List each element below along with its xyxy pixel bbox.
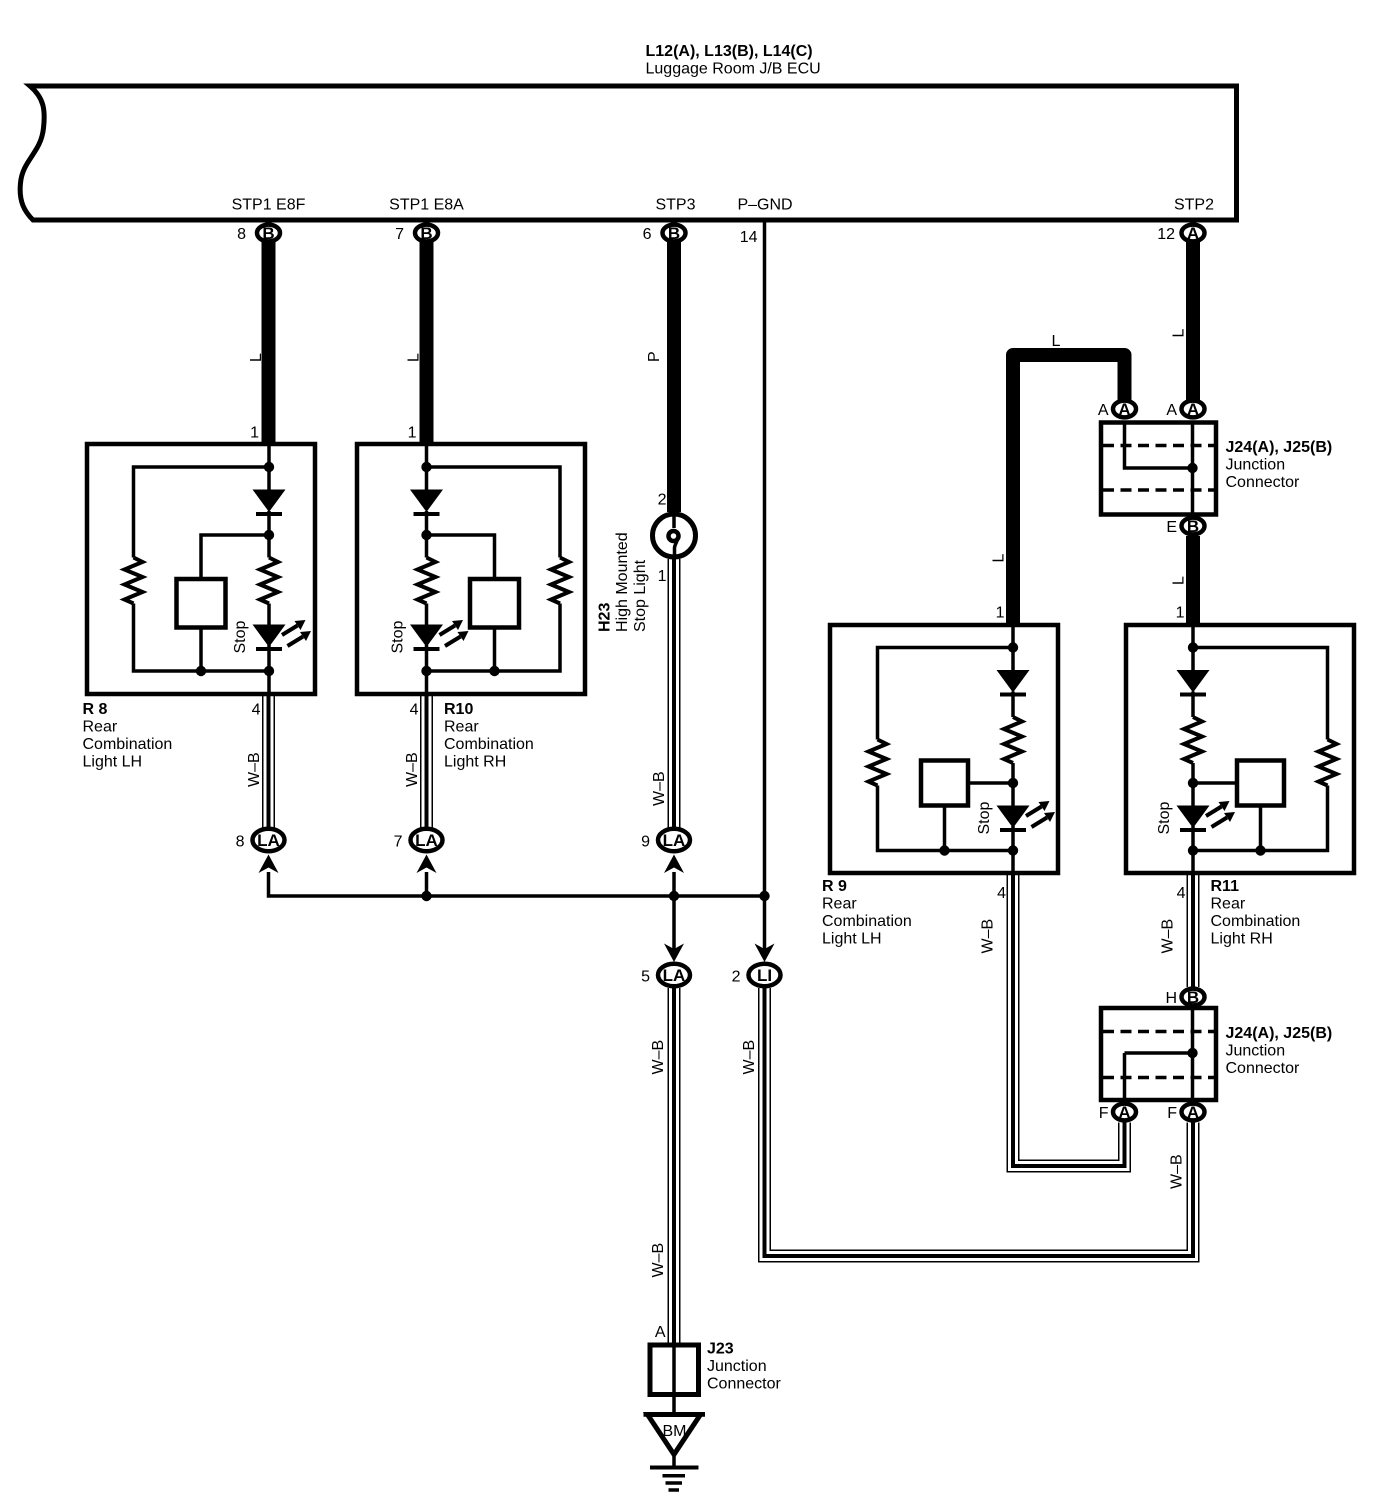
wire branch 9 LA to 5 LA — [672, 872, 676, 951]
svg-text:Combination: Combination — [1211, 913, 1301, 930]
svg-text:J24(A), J25(B): J24(A), J25(B) — [1226, 439, 1333, 456]
svg-text:8: 8 — [236, 834, 245, 851]
pin F (A) left of lower junction — [1113, 1103, 1136, 1122]
R11 main vertical wire — [1191, 625, 1195, 873]
svg-text:Luggage Room J/B ECU: Luggage Room J/B ECU — [646, 61, 821, 78]
svg-text:7: 7 — [394, 834, 403, 851]
R10 diode — [410, 490, 443, 515]
R9 node top — [1008, 642, 1018, 652]
R8 node bottom — [264, 666, 274, 676]
R11 box — [1126, 625, 1354, 873]
svg-text:1: 1 — [1176, 605, 1185, 622]
svg-text:Rear: Rear — [444, 719, 479, 736]
R9 node mid — [1008, 778, 1018, 788]
ground stem — [672, 1452, 676, 1466]
pin A (left) of upper junction — [1113, 400, 1136, 419]
wire W-B from 5 LA to J23 — [668, 988, 681, 1345]
svg-text:High Mounted: High Mounted — [614, 532, 631, 632]
R9 LED arrows — [1026, 801, 1055, 827]
wire ground bus — [269, 872, 765, 896]
Luggage Room J/B ECU box — [20, 86, 1236, 220]
svg-text:4: 4 — [997, 885, 1006, 902]
R9 relay box — [921, 761, 968, 806]
svg-text:W–B: W–B — [980, 919, 997, 954]
pin 8 LA — [253, 829, 285, 851]
svg-text:STP1 E8F: STP1 E8F — [232, 197, 306, 214]
svg-text:H23: H23 — [597, 603, 614, 632]
svg-text:A: A — [655, 1324, 666, 1341]
lower junction node — [1187, 1048, 1197, 1058]
R10 main vertical wire — [425, 444, 429, 694]
R9 stop LED — [997, 806, 1030, 831]
R9 left branch wire — [878, 648, 1014, 851]
svg-text:W–B: W–B — [650, 1243, 667, 1278]
wire branch to 7 LA — [425, 872, 429, 896]
ground bars — [650, 1466, 699, 1470]
svg-text:9: 9 — [641, 834, 650, 851]
svg-text:14: 14 — [740, 229, 758, 246]
R10 node bottom — [421, 666, 431, 676]
svg-text:R10: R10 — [444, 701, 473, 718]
R9 diode — [997, 670, 1030, 695]
pin 12 (A) — [1182, 224, 1205, 243]
R11 relay box — [1237, 761, 1284, 806]
lower junction dashed lines — [1103, 1030, 1214, 1034]
svg-text:J24(A), J25(B): J24(A), J25(B) — [1226, 1025, 1333, 1042]
wire W-B from H23 pin 1 — [668, 559, 681, 828]
ground BM triangle — [648, 1415, 701, 1455]
R8 LED arrows — [282, 620, 311, 646]
arrow into 7 LA — [417, 855, 437, 874]
svg-text:Combination: Combination — [822, 913, 912, 930]
R11 diode — [1177, 670, 1210, 695]
svg-text:Connector: Connector — [1226, 1060, 1300, 1077]
svg-text:Light RH: Light RH — [444, 754, 506, 771]
wire L from junction connector E(B) to R11 pin 1 — [1186, 536, 1200, 625]
R11 stop LED — [1177, 806, 1210, 831]
svg-text:Rear: Rear — [822, 896, 857, 913]
svg-text:Rear: Rear — [1211, 896, 1246, 913]
R10 node mid — [421, 530, 431, 540]
svg-text:7: 7 — [395, 226, 404, 243]
R8 main vertical wire — [267, 444, 271, 694]
svg-text:L: L — [248, 353, 265, 362]
R10 node top — [421, 462, 431, 472]
svg-text:P–GND: P–GND — [737, 197, 792, 214]
svg-text:STP2: STP2 — [1174, 197, 1214, 214]
svg-text:Light LH: Light LH — [822, 931, 882, 948]
upper junction dashed lines — [1103, 444, 1214, 448]
svg-text:W–B: W–B — [741, 1040, 758, 1075]
svg-text:Light RH: Light RH — [1211, 931, 1273, 948]
svg-text:J23: J23 — [707, 1341, 734, 1358]
wire STP1-E8F thick L wire — [262, 241, 276, 444]
R10 main resistor — [418, 558, 436, 604]
R11 node top — [1188, 642, 1198, 652]
svg-text:1: 1 — [996, 605, 1005, 622]
R11 main resistor — [1184, 717, 1202, 763]
arrow into 8 LA — [259, 855, 279, 874]
svg-text:R 9: R 9 — [822, 878, 847, 895]
svg-text:Light LH: Light LH — [83, 754, 143, 771]
R11 LED arrows — [1206, 801, 1235, 827]
R10 relay node — [489, 666, 499, 676]
pin 9 LA — [658, 829, 690, 851]
R10 relay box — [470, 579, 519, 628]
wire L from junction connector A to R9 pin 1 — [1013, 355, 1125, 625]
wire W-B from R8 pin 4 — [262, 694, 275, 828]
R8 relay node — [196, 666, 206, 676]
R8 relay branch wire — [201, 535, 269, 671]
svg-text:Combination: Combination — [444, 736, 534, 753]
pin 7 LA — [411, 829, 443, 851]
wire W-B from R10 pin 4 — [420, 694, 433, 828]
svg-text:P: P — [646, 351, 663, 362]
R11 node mid — [1188, 778, 1198, 788]
wire STP3 thick P wire — [667, 241, 681, 512]
pin A (right) of upper junction — [1182, 400, 1205, 419]
svg-text:6: 6 — [643, 226, 652, 243]
R9 relay branch wire — [945, 783, 1014, 851]
svg-text:5: 5 — [641, 969, 650, 986]
svg-text:STP3: STP3 — [655, 197, 695, 214]
R8 stop LED — [253, 625, 286, 650]
R10 relay branch wire — [427, 535, 495, 671]
upper junction node — [1187, 463, 1197, 473]
svg-text:R11: R11 — [1211, 878, 1240, 895]
R10 box — [357, 444, 585, 694]
wire STP1-E8A thick L wire — [420, 241, 434, 444]
R10 right branch wire — [427, 467, 561, 671]
R9 main resistor — [1004, 717, 1022, 763]
R8 node top — [264, 462, 274, 472]
lower junction connector box — [1101, 1008, 1216, 1100]
svg-text:R 8: R 8 — [83, 701, 108, 718]
J23 junction connector box — [650, 1345, 699, 1395]
svg-text:2: 2 — [658, 492, 667, 509]
node P-GND at bus — [759, 891, 769, 901]
svg-text:Stop: Stop — [976, 801, 993, 834]
svg-text:Combination: Combination — [83, 736, 173, 753]
svg-text:F: F — [1099, 1105, 1109, 1122]
ground BM triangle top bar — [644, 1412, 706, 1417]
R8 main resistor — [260, 558, 278, 604]
svg-text:W–B: W–B — [1160, 919, 1177, 954]
svg-text:1: 1 — [658, 568, 667, 585]
wire W-B from R11 pin 4 to junction connector H(B) — [1187, 873, 1200, 987]
pin H (B) of lower junction — [1182, 988, 1205, 1007]
R8 box — [87, 444, 315, 694]
svg-text:A: A — [1098, 402, 1109, 419]
svg-text:H: H — [1165, 990, 1177, 1007]
R10 right resistor — [551, 558, 569, 604]
R11 right resistor — [1319, 740, 1337, 786]
svg-text:Connector: Connector — [1226, 474, 1300, 491]
R9 node bottom — [1008, 845, 1018, 855]
wire W-B from R9 pin 4 to junction connector F(A) — [1013, 873, 1125, 1166]
wire J23 to ground — [672, 1395, 676, 1415]
R9 relay node — [939, 845, 949, 855]
pin 5 LA — [658, 964, 690, 986]
arrow into 9 LA — [664, 855, 684, 874]
svg-text:4: 4 — [410, 702, 419, 719]
svg-text:L: L — [991, 554, 1008, 563]
wire W-B from 2 LI to junction connector F(A) — [765, 988, 1194, 1256]
svg-text:Junction: Junction — [1226, 1043, 1286, 1060]
svg-text:W–B: W–B — [1169, 1154, 1186, 1189]
svg-text:4: 4 — [1177, 885, 1186, 902]
svg-text:Stop: Stop — [1156, 801, 1173, 834]
pin 2 LI — [749, 964, 781, 986]
svg-text:W–B: W–B — [246, 752, 263, 787]
H23 bulb circle — [653, 514, 696, 557]
upper junction connector box — [1101, 423, 1216, 515]
J23 internal wire — [672, 1345, 676, 1395]
pin 7 (B) — [415, 224, 438, 243]
svg-text:W–B: W–B — [650, 1040, 667, 1075]
R10 LED arrows — [440, 620, 469, 646]
pin E (B) of upper junction — [1182, 517, 1205, 536]
R9 left resistor — [869, 740, 887, 786]
R11 right branch wire — [1193, 648, 1328, 851]
svg-text:1: 1 — [250, 425, 259, 442]
svg-text:Junction: Junction — [1226, 457, 1286, 474]
pin 6 (B) — [663, 224, 686, 243]
pin F (A) right of lower junction — [1182, 1103, 1205, 1122]
svg-text:2: 2 — [732, 969, 741, 986]
svg-text:12: 12 — [1157, 226, 1175, 243]
svg-text:W–B: W–B — [404, 752, 421, 787]
svg-text:Stop: Stop — [390, 620, 407, 653]
node under 9 LA — [669, 891, 679, 901]
R9 main vertical wire — [1011, 625, 1015, 873]
svg-text:Stop: Stop — [232, 620, 249, 653]
R8 left branch wire — [134, 467, 270, 671]
upper junction internal wires — [1125, 423, 1193, 515]
svg-text:Rear: Rear — [83, 719, 118, 736]
R11 relay branch wire — [1193, 783, 1261, 851]
arrow into 5 LA — [664, 944, 684, 963]
svg-text:L12(A), L13(B), L14(C): L12(A), L13(B), L14(C) — [646, 43, 813, 60]
R11 node bottom — [1188, 845, 1198, 855]
lower junction internal wires — [1125, 1008, 1193, 1100]
svg-text:L: L — [406, 353, 423, 362]
R8 node mid — [264, 530, 274, 540]
svg-text:A: A — [1166, 402, 1177, 419]
svg-text:L: L — [1171, 329, 1188, 338]
wire STP2 thick L wire — [1186, 241, 1200, 400]
svg-text:L: L — [1171, 576, 1188, 585]
H23 filament — [672, 514, 676, 528]
svg-text:F: F — [1167, 1105, 1177, 1122]
svg-text:E: E — [1166, 519, 1177, 536]
R9 box — [830, 625, 1058, 873]
svg-text:BM: BM — [663, 1423, 687, 1440]
svg-text:Junction: Junction — [707, 1358, 767, 1375]
pin 8 (B) — [257, 224, 280, 243]
svg-text:4: 4 — [252, 702, 261, 719]
node under 7 LA — [421, 891, 431, 901]
svg-text:L: L — [1052, 333, 1061, 350]
R11 relay node — [1255, 845, 1265, 855]
svg-text:Stop Light: Stop Light — [632, 559, 649, 632]
svg-text:Connector: Connector — [707, 1376, 781, 1393]
R8 left resistor — [125, 558, 143, 604]
R8 relay box — [177, 579, 226, 628]
wire P-GND — [763, 220, 767, 951]
svg-text:1: 1 — [408, 425, 417, 442]
svg-text:8: 8 — [237, 226, 246, 243]
R10 stop LED — [410, 625, 443, 650]
arrow into 2 LI — [755, 944, 775, 963]
R8 diode — [253, 490, 286, 515]
svg-text:STP1 E8A: STP1 E8A — [389, 197, 464, 214]
svg-text:W–B: W–B — [651, 771, 668, 806]
